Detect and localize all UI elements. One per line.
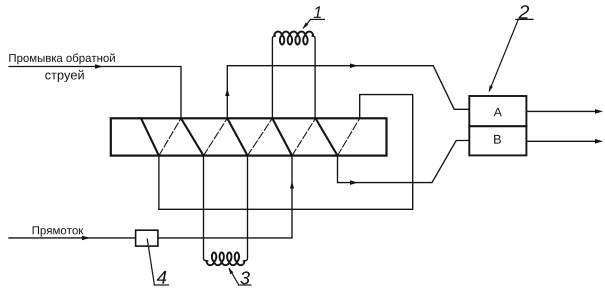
coil 1 right leg bbox=[312, 36, 315, 118]
label: backwash text line 1 bbox=[9, 53, 115, 64]
coil 1 left leg bbox=[272, 36, 275, 118]
wire: output A bbox=[526, 110, 597, 112]
letter B bbox=[494, 135, 501, 144]
callout 3: arrowhead bbox=[228, 267, 233, 274]
separator box B bbox=[469, 126, 526, 155]
callout 3: digit bbox=[240, 271, 250, 284]
wire: backwash inlet line bbox=[9, 67, 181, 119]
arrowhead output B bbox=[595, 139, 603, 144]
callout 2: arrowhead bbox=[489, 85, 493, 92]
arrowhead on feed line bbox=[82, 236, 90, 241]
wire: bottom outlet from drum to separator B bbox=[338, 141, 470, 183]
callout 4: leader bbox=[147, 239, 168, 285]
callout 4: digit bbox=[157, 271, 167, 284]
coil 3 left leg bbox=[204, 156, 208, 261]
screw flight solid strokes bbox=[141, 118, 338, 155]
wire: top outlet from drum to separator bbox=[227, 66, 469, 119]
callout 2: digit bbox=[519, 5, 530, 19]
callout 2: leader bbox=[490, 19, 534, 90]
wire: recirculation loop (drum top right, around right side, to drum bottom left) bbox=[159, 95, 413, 210]
arrowhead right on top outlet line bbox=[350, 63, 358, 68]
label: backwash text line 2 bbox=[45, 70, 83, 82]
arrowhead up on feed riser bbox=[290, 182, 294, 189]
coil 1 winding bbox=[274, 32, 313, 36]
callout 3: leader bbox=[230, 269, 252, 285]
arrowhead on backwash line bbox=[95, 64, 103, 69]
coil 3 right leg bbox=[243, 156, 247, 261]
callout 1: leader bbox=[304, 19, 325, 28]
wire: output B bbox=[526, 140, 597, 142]
label: direct-flow text bbox=[33, 226, 84, 236]
callout 1: digit bbox=[314, 6, 321, 18]
letter A bbox=[494, 108, 502, 116]
wire: direct-flow feed line bbox=[9, 156, 292, 238]
separator box A bbox=[469, 96, 526, 126]
arrowhead right on bottom outlet bbox=[350, 180, 358, 185]
screw flight dashed (far side) strokes bbox=[159, 118, 360, 155]
body: filter drum rectangle bbox=[111, 118, 387, 155]
device 4: small box on feed line bbox=[136, 230, 158, 246]
coil 3 winding bbox=[207, 261, 245, 265]
arrowhead output A bbox=[595, 109, 603, 114]
callout 1: arrowhead bbox=[303, 23, 309, 30]
arrowhead up on outlet riser bbox=[225, 89, 229, 97]
